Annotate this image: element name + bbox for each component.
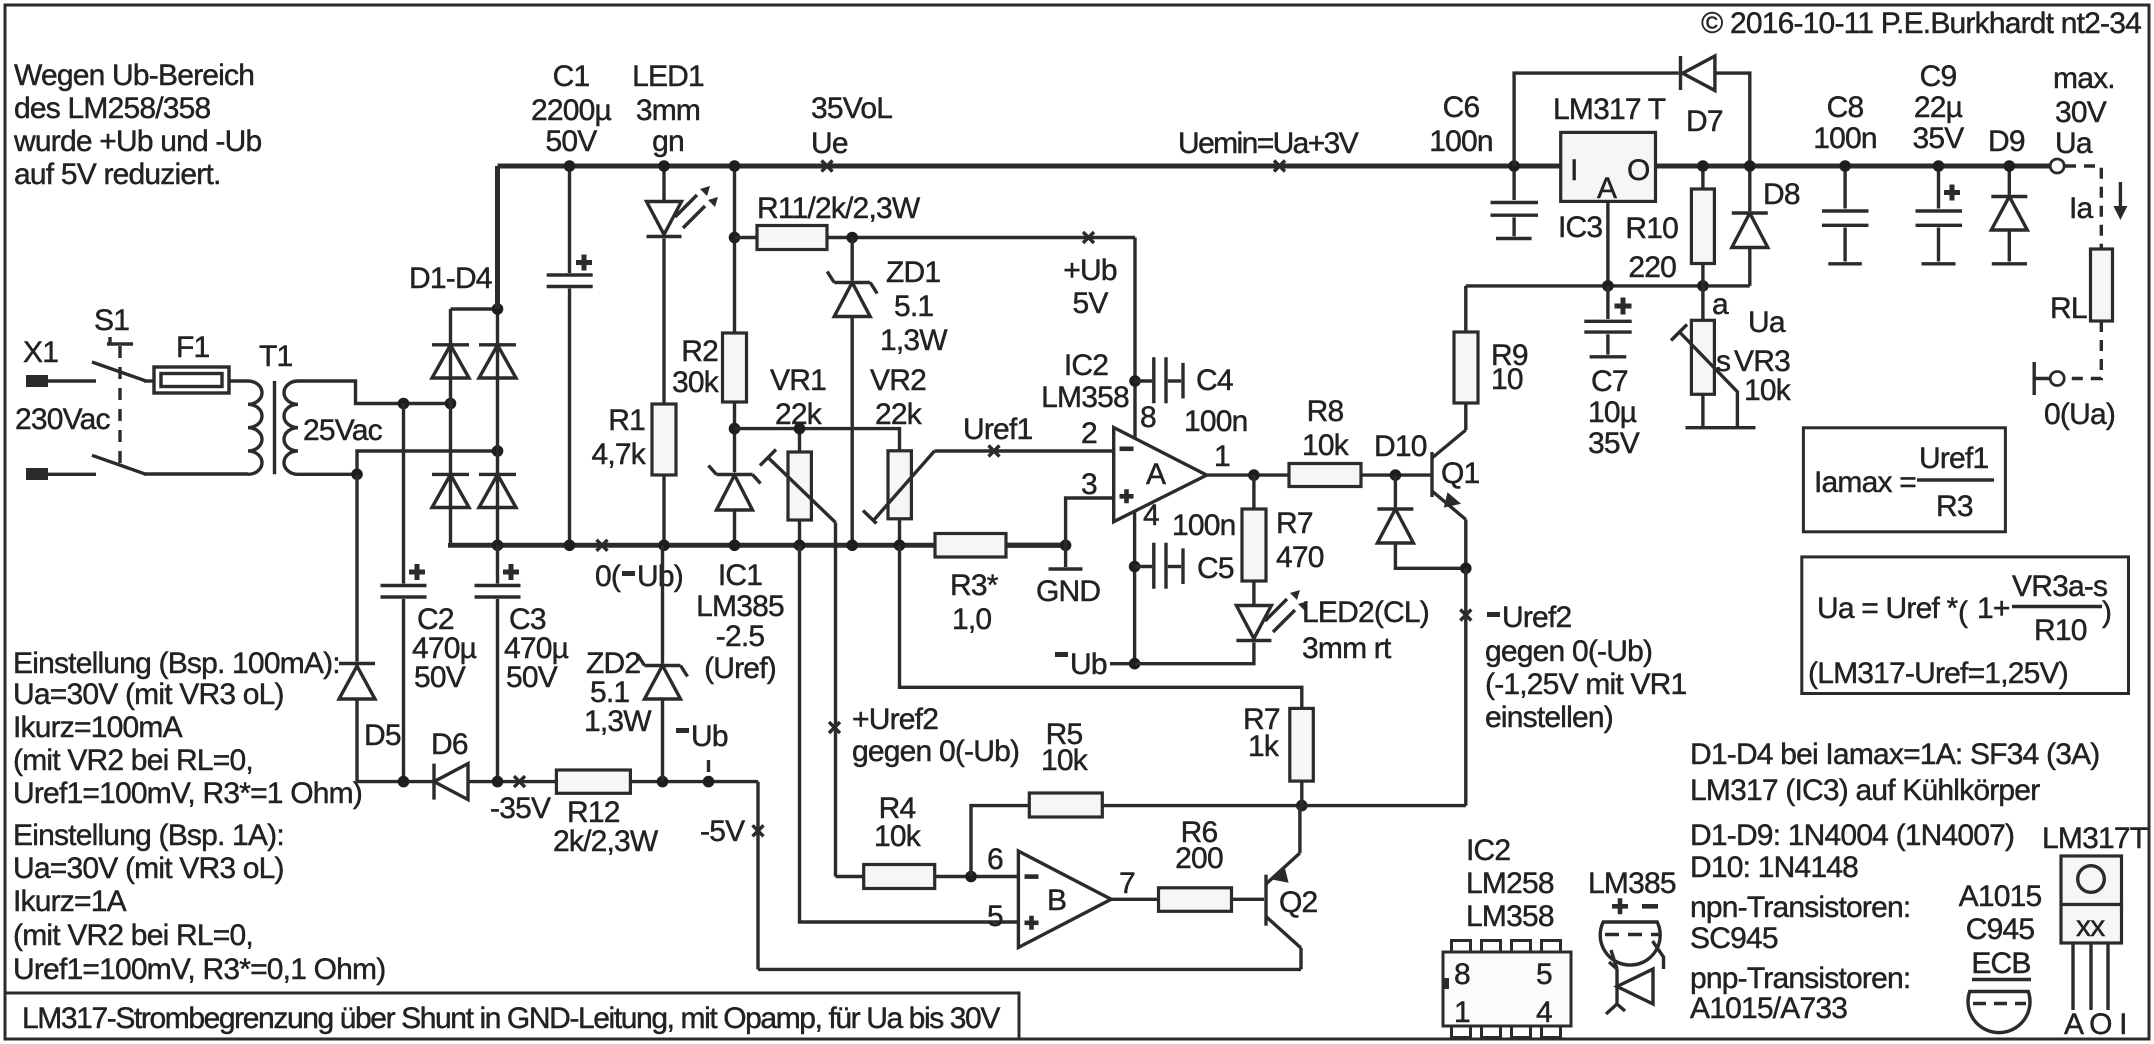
svg-text:R3: R3 — [1936, 490, 1973, 523]
connector X1 — [15, 336, 111, 480]
svg-text:R10: R10 — [1625, 212, 1678, 245]
junction bridge top — [492, 303, 504, 315]
label Ia arrow — [2069, 182, 2127, 225]
junction VR1 top — [794, 423, 806, 435]
transformer T1 — [248, 340, 383, 474]
svg-text:100n: 100n — [1429, 125, 1493, 158]
svg-text:R11/2k/2,3W: R11/2k/2,3W — [757, 192, 921, 225]
svg-text:LM317 (IC3) auf Kühlkörper: LM317 (IC3) auf Kühlkörper — [1690, 774, 2040, 807]
svg-text:10: 10 — [1491, 363, 1523, 396]
svg-text:gegen 0(-Ub): gegen 0(-Ub) — [852, 735, 1019, 768]
svg-text:D5: D5 — [364, 719, 401, 752]
svg-text:4: 4 — [1143, 499, 1159, 532]
junction bridge bottom — [492, 540, 504, 552]
svg-text:1,0: 1,0 — [952, 603, 991, 636]
svg-text:A: A — [1597, 172, 1617, 205]
svg-text:D1-D9: 1N4004 (1N4007): D1-D9: 1N4004 (1N4007) — [1690, 819, 2014, 852]
svg-text:D10: D10 — [1374, 430, 1427, 463]
svg-text:IC3: IC3 — [1558, 211, 1602, 244]
svg-text:IC2: IC2 — [1466, 834, 1510, 867]
wire ADJ rail — [1466, 284, 1750, 287]
svg-text:4,7k: 4,7k — [591, 438, 646, 471]
junction D8 top — [1744, 160, 1756, 172]
svg-text:RL: RL — [2050, 292, 2087, 325]
svg-text:220: 220 — [1628, 251, 1676, 284]
junction LED1 top — [658, 160, 670, 172]
resistor R9 — [1454, 286, 1528, 403]
svg-text:s: s — [1716, 345, 1730, 378]
wire dashed to RL — [2065, 166, 2101, 249]
capacitor C9 — [1913, 60, 1965, 264]
svg-text:Uref2: Uref2 — [1502, 601, 1571, 634]
svg-text:Wegen Ub-Bereich: Wegen Ub-Bereich — [14, 59, 254, 92]
svg-text:Q1: Q1 — [1441, 457, 1480, 490]
wire op-amp B output — [1111, 898, 1158, 901]
svg-text:Iamax =: Iamax = — [1814, 466, 1916, 499]
svg-text:R10: R10 — [2034, 614, 2087, 647]
svg-text:ZD1: ZD1 — [886, 256, 940, 289]
svg-text:5.1: 5.1 — [894, 290, 933, 323]
svg-text:VR1: VR1 — [770, 364, 826, 397]
svg-text:Uemin=Ua+3V: Uemin=Ua+3V — [1178, 127, 1359, 160]
junction VR1 bottom — [794, 540, 806, 552]
svg-text:B: B — [1047, 884, 1066, 917]
wire X1 to S1 bottom — [48, 473, 96, 476]
junction C1 top — [564, 160, 576, 172]
terminal 0(Ua) — [2034, 362, 2115, 431]
svg-text:R7: R7 — [1276, 507, 1313, 540]
junction C2 on rail — [398, 776, 410, 788]
svg-text:35VoL: 35VoL — [811, 92, 892, 125]
svg-text:10µ: 10µ — [1588, 396, 1637, 429]
svg-text:Ua = Uref *: Ua = Uref * — [1817, 592, 1959, 625]
svg-text:D8: D8 — [1763, 178, 1800, 211]
capacitor C5 — [1135, 509, 1236, 589]
junction AC1 at bridge left column — [445, 398, 457, 410]
svg-text:A: A — [1146, 458, 1166, 491]
capacitor C7 — [1584, 286, 1639, 460]
svg-text:Ue: Ue — [811, 127, 848, 160]
capacitor C4 — [1135, 357, 1248, 438]
svg-text:SC945: SC945 — [1690, 922, 1778, 955]
svg-text:8: 8 — [1140, 401, 1156, 434]
junction C8 — [1839, 160, 1851, 172]
junction -Ub node — [1129, 658, 1141, 670]
svg-text:Ua: Ua — [2055, 127, 2093, 160]
svg-text:Uref1=100mV, R3*=1 Ohm): Uref1=100mV, R3*=1 Ohm) — [13, 777, 362, 810]
svg-text:gn: gn — [652, 125, 684, 158]
svg-text:npn-Transistoren:: npn-Transistoren: — [1690, 891, 1910, 924]
wire +Uref2 sense from VR1 wiper — [834, 523, 837, 877]
junction C5 tee — [1129, 561, 1141, 573]
svg-text:2: 2 — [1081, 417, 1097, 450]
junction D10 tee — [1390, 469, 1402, 481]
wire op-amp A output — [1207, 473, 1289, 476]
label -Ub left — [676, 720, 728, 772]
svg-text:xx: xx — [2076, 910, 2105, 943]
svg-text:R2: R2 — [681, 335, 718, 368]
svg-text:(Uref): (Uref) — [704, 652, 776, 685]
wire S1 to F1 — [144, 379, 154, 382]
svg-text:F1: F1 — [176, 331, 210, 364]
svg-text:D9: D9 — [1988, 125, 2025, 158]
junction R4/R5 node — [965, 871, 977, 883]
svg-text:C6: C6 — [1443, 91, 1480, 124]
wire ADJ pin down — [1606, 201, 1609, 286]
junction C1 bottom — [564, 540, 576, 552]
svg-text:0(: 0( — [595, 560, 621, 593]
ground GND symbol — [1036, 545, 1100, 608]
wire AC1: T1 top to bridge — [298, 381, 451, 404]
svg-text:30k: 30k — [672, 366, 720, 399]
svg-text:Ub: Ub — [691, 720, 728, 753]
formula box Ua — [1802, 557, 2129, 694]
svg-text:+Ub: +Ub — [1063, 254, 1117, 287]
svg-text:Q2: Q2 — [1279, 886, 1318, 919]
svg-text:Ia: Ia — [2069, 192, 2094, 225]
wire thick: 0(-Ub) bus — [451, 543, 1066, 545]
svg-text:2200µ: 2200µ — [531, 94, 612, 127]
svg-text:R1: R1 — [608, 404, 645, 437]
shunt resistor R3* — [935, 534, 1066, 637]
diode D10 — [1374, 430, 1466, 568]
wire R12 to -Ub corner — [630, 780, 758, 783]
svg-text:Einstellung (Bsp. 1A):: Einstellung (Bsp. 1A): — [13, 819, 284, 852]
svg-text:200: 200 — [1175, 842, 1223, 875]
diode D7 — [1514, 56, 1750, 166]
svg-text:a: a — [1712, 288, 1729, 321]
svg-text:Ub): Ub) — [637, 560, 683, 593]
svg-text:22µ: 22µ — [1914, 91, 1963, 124]
svg-text:3mm rt: 3mm rt — [1302, 632, 1392, 665]
junction AC2 at bridge right column — [492, 445, 504, 457]
LM317T package symbol — [2042, 822, 2148, 1041]
svg-text:pnp-Transistoren:: pnp-Transistoren: — [1690, 962, 1910, 995]
svg-text:O: O — [1627, 154, 1650, 187]
bridge rectifier D1-D4 — [409, 262, 516, 545]
wire thick: bridge top to 35V bus — [495, 166, 500, 309]
svg-text:1+: 1+ — [1977, 592, 2010, 625]
wire -Ub to LED2 — [1135, 643, 1254, 664]
svg-text:(mit VR2 bei RL=0,: (mit VR2 bei RL=0, — [13, 919, 253, 952]
wire Uref1 to op-amp pin 2 — [935, 449, 1114, 452]
label Uref1 — [963, 413, 1032, 457]
junction D9 — [2004, 160, 2016, 172]
svg-text:VR2: VR2 — [870, 364, 926, 397]
svg-text:1: 1 — [1214, 440, 1230, 473]
capacitor C1 — [531, 60, 612, 545]
junction C6/D7 — [1508, 160, 1520, 172]
svg-text:3: 3 — [1081, 468, 1097, 501]
svg-text:8: 8 — [1454, 958, 1470, 991]
svg-text:R8: R8 — [1307, 395, 1344, 428]
svg-text:-35V: -35V — [490, 792, 551, 825]
resistor R10 — [1625, 166, 1714, 286]
diode D6 — [431, 728, 468, 800]
svg-text:S1: S1 — [94, 304, 129, 337]
svg-text:): ) — [2102, 596, 2112, 629]
svg-text:LED2(CL): LED2(CL) — [1302, 596, 1429, 629]
svg-text:100n: 100n — [1813, 122, 1877, 155]
label Uemin=Ua+3V — [1178, 127, 1359, 172]
resistor R11 — [735, 192, 1136, 250]
resistor R7 470 — [1242, 475, 1324, 581]
label -35V — [490, 776, 551, 825]
svg-text:1: 1 — [1454, 996, 1470, 1029]
junction ZD2 on rail — [657, 776, 669, 788]
svg-text:A O I: A O I — [2064, 1008, 2127, 1041]
capacitor C3 — [475, 545, 569, 781]
label -Uref2 — [1460, 601, 1686, 734]
svg-text:(mit VR2 bei RL=0,: (mit VR2 bei RL=0, — [13, 744, 253, 777]
svg-text:(: ( — [1958, 596, 1968, 629]
svg-text:-5V: -5V — [700, 815, 745, 848]
svg-text:470: 470 — [1276, 541, 1324, 574]
junction IC1 bottom — [729, 540, 741, 552]
diode D8 — [1732, 166, 1800, 286]
label +Uref2 — [829, 703, 1019, 768]
svg-text:7: 7 — [1119, 867, 1135, 900]
junction AC1/C2 — [398, 398, 410, 410]
note text: Einstellung block 1 — [13, 647, 362, 810]
transistor Q1 — [1432, 403, 1480, 568]
junction R10 top — [1697, 160, 1709, 172]
svg-text:Ua=30V (mit VR3 oL): Ua=30V (mit VR3 oL) — [13, 852, 284, 885]
formula box Iamax — [1803, 428, 2005, 532]
svg-text:22k: 22k — [875, 398, 923, 431]
A1015/C945 pinout symbol — [1959, 880, 2042, 1033]
svg-text:LM358: LM358 — [1466, 900, 1554, 933]
svg-text:X1: X1 — [23, 336, 58, 369]
op-amp U A (IC2a) — [1041, 349, 1230, 532]
svg-text:50V: 50V — [414, 661, 466, 694]
svg-text:LM385: LM385 — [1588, 867, 1676, 900]
svg-text:IC2: IC2 — [1064, 349, 1108, 382]
switch S1 — [92, 304, 146, 474]
svg-text:des LM258/358: des LM258/358 — [14, 92, 211, 125]
wire AC2: T1 bottom to bridge — [298, 451, 498, 474]
svg-text:Uref1: Uref1 — [963, 413, 1032, 446]
svg-text:© 2016-10-11 P.E.Burkhardt nt2: © 2016-10-11 P.E.Burkhardt nt2-34 — [1701, 7, 2141, 40]
zener ZD2 — [584, 545, 688, 781]
resistor R12 — [553, 770, 659, 858]
wire -Uref2 down from Q1 emitter — [1464, 568, 1467, 805]
svg-text:einstellen): einstellen) — [1485, 701, 1613, 734]
wire Uref line IC1 to VR1/VR2 — [735, 429, 900, 451]
svg-text:LM385: LM385 — [696, 590, 784, 623]
svg-text:1,3W: 1,3W — [880, 324, 948, 357]
svg-text:GND: GND — [1036, 575, 1100, 608]
LED LED1 — [632, 60, 718, 404]
svg-text:D1-D4: D1-D4 — [409, 262, 492, 295]
svg-text:auf 5V reduziert.: auf 5V reduziert. — [14, 158, 221, 191]
resistor R2 — [672, 333, 746, 472]
wire GND to op-amp pin 3 — [1066, 498, 1114, 545]
svg-text:1,3W: 1,3W — [584, 705, 652, 738]
svg-text:Uref1: Uref1 — [1919, 442, 1988, 475]
svg-text:5: 5 — [1536, 958, 1552, 991]
svg-text:10k: 10k — [1744, 374, 1792, 407]
svg-text:(-1,25V mit VR1: (-1,25V mit VR1 — [1485, 668, 1687, 701]
svg-text:100n: 100n — [1184, 405, 1248, 438]
resistor R6 — [1159, 816, 1265, 911]
svg-text:IC1: IC1 — [718, 559, 762, 592]
svg-text:C4: C4 — [1196, 364, 1233, 397]
label -5V — [700, 815, 764, 848]
label 35VoL Ue — [811, 92, 892, 172]
svg-text:Einstellung (Bsp. 100mA):: Einstellung (Bsp. 100mA): — [13, 647, 340, 680]
wire R2 column from bus — [733, 166, 736, 333]
wire D6 to R12 — [468, 780, 556, 783]
junction GND node — [1060, 540, 1072, 552]
svg-text:max.: max. — [2053, 62, 2115, 95]
fuse F1 — [154, 331, 229, 393]
potentiometer VR3 — [1671, 286, 1792, 428]
svg-text:35V: 35V — [1588, 427, 1640, 460]
junction ADJ/C7 — [1602, 280, 1614, 292]
svg-text:gegen 0(-Ub): gegen 0(-Ub) — [1485, 635, 1652, 668]
svg-text:D6: D6 — [431, 728, 468, 761]
resistor R8 — [1289, 395, 1430, 487]
label -Ub at op-amp — [1055, 648, 1135, 681]
svg-text:D10: 1N4148: D10: 1N4148 — [1690, 851, 1858, 884]
wire F1 to T1 — [229, 379, 248, 382]
title box bottom — [5, 993, 1019, 1039]
svg-text:A1015/A733: A1015/A733 — [1690, 992, 1847, 1025]
svg-text:25Vac: 25Vac — [303, 414, 383, 447]
svg-text:(LM317-Uref=1,25V): (LM317-Uref=1,25V) — [1808, 657, 2068, 690]
svg-text:0(Ua): 0(Ua) — [2044, 398, 2115, 431]
zener ZD1 — [827, 238, 948, 546]
capacitor C8 — [1813, 91, 1877, 264]
svg-text:Ua=30V (mit VR3 oL): Ua=30V (mit VR3 oL) — [13, 678, 284, 711]
label +Ub 5V — [1063, 232, 1117, 320]
junction Uref node — [729, 423, 741, 435]
resistor R5 — [1029, 718, 1302, 817]
wire op-amp pin 4 down — [1133, 511, 1136, 664]
potentiometer VR2 — [863, 364, 935, 545]
svg-text:D1-D4 bei Iamax=1A: SF34 (3A): D1-D4 bei Iamax=1A: SF34 (3A) — [1690, 738, 2100, 771]
wire S1 to T1 bottom — [144, 472, 248, 475]
junction ZD1 bottom — [846, 540, 858, 552]
svg-text:LED1: LED1 — [632, 60, 704, 93]
op-amp U B (IC2b) — [987, 843, 1135, 948]
wire X1 to S1 top — [48, 379, 96, 382]
svg-text:230Vac: 230Vac — [15, 403, 111, 436]
svg-text:2k/2,3W: 2k/2,3W — [553, 825, 659, 858]
regulator IC3 LM317 — [1553, 93, 1666, 244]
capacitor C2 — [381, 404, 477, 782]
junction R11 tee — [729, 232, 741, 244]
wire VR1 bottom to op-amp B pin5 — [800, 545, 1019, 922]
svg-text:D7: D7 — [1686, 105, 1723, 138]
svg-text:T1: T1 — [259, 340, 293, 373]
svg-text:I: I — [1570, 154, 1578, 187]
shunt reference IC1 LM385 — [696, 466, 784, 686]
load RL — [2050, 249, 2113, 325]
svg-text:LM317T: LM317T — [2042, 822, 2148, 855]
svg-text:Ub: Ub — [1070, 648, 1107, 681]
svg-text:10k: 10k — [1041, 744, 1089, 777]
junction R1 bottom — [658, 540, 670, 552]
svg-text:Ikurz=1A: Ikurz=1A — [13, 885, 127, 918]
wire -5V drop — [756, 782, 759, 970]
svg-text:6: 6 — [987, 843, 1003, 876]
junction output node — [1248, 469, 1260, 481]
junction C3 on rail — [492, 776, 504, 788]
wire feedback to R5 — [971, 806, 1029, 877]
svg-text:10k: 10k — [874, 820, 922, 853]
svg-text:Ua: Ua — [1748, 306, 1786, 339]
svg-text:-2.5: -2.5 — [716, 620, 765, 653]
transistor Q2 — [1266, 806, 1318, 970]
svg-text:LM317 T: LM317 T — [1553, 93, 1666, 126]
wire +Ub drop to op-amp pin 8 — [1133, 238, 1136, 440]
diode D5 — [339, 474, 404, 781]
resistor R4 — [836, 792, 1019, 889]
svg-text:wurde +Ub und -Ub: wurde +Ub und -Ub — [13, 125, 261, 158]
wire dashed RL to 0(Ua) — [2066, 321, 2101, 379]
note text: parts info bottom right — [1690, 738, 2100, 1025]
svg-text:4: 4 — [1536, 996, 1552, 1029]
junction ZD1 tee — [846, 232, 858, 244]
junction R2 top bus — [729, 160, 741, 172]
svg-text:10k: 10k — [1302, 429, 1350, 462]
svg-text:30V: 30V — [2055, 96, 2107, 129]
resistor R7 1k — [1243, 703, 1313, 806]
junction VR2 bottom — [894, 540, 906, 552]
junction -Ub stub on rail — [703, 776, 715, 788]
junction AC2/D5 — [351, 469, 363, 481]
svg-text:C8: C8 — [1827, 91, 1864, 124]
svg-text:5: 5 — [987, 900, 1003, 933]
junction C4 tee — [1129, 375, 1141, 387]
note text top-left — [13, 59, 261, 191]
svg-text:A1015: A1015 — [1959, 880, 2042, 913]
svg-text:LM358: LM358 — [1041, 381, 1129, 414]
svg-text:R3*: R3* — [950, 569, 999, 602]
note text: Einstellung block 2 — [13, 819, 385, 986]
LM385 package symbol — [1588, 867, 1676, 1014]
diode D9 — [1988, 125, 2027, 264]
svg-text:C1: C1 — [553, 60, 590, 93]
svg-text:1k: 1k — [1248, 730, 1280, 763]
svg-text:C7: C7 — [1591, 365, 1628, 398]
svg-text:Ikurz=100mA: Ikurz=100mA — [13, 711, 183, 744]
svg-text:C9: C9 — [1920, 60, 1957, 93]
label 0(-Ub) — [595, 540, 683, 593]
svg-text:ECB: ECB — [1971, 947, 2030, 980]
wire R5 node to Q1 emitter line — [1302, 804, 1466, 807]
svg-text:LM317-Strombegrenzung über Shu: LM317-Strombegrenzung über Shunt in GND-… — [22, 1002, 1000, 1035]
svg-text:Uref1=100mV, R3*=0,1 Ohm): Uref1=100mV, R3*=0,1 Ohm) — [13, 953, 385, 986]
svg-text:VR3a-s: VR3a-s — [2012, 570, 2107, 603]
wire bottom rail to Q2 emitter — [758, 968, 1301, 971]
wire VR2 bottom down to R7 1k line — [900, 545, 1302, 708]
svg-text:C5: C5 — [1197, 552, 1234, 585]
potentiometer VR1 — [760, 364, 836, 545]
svg-text:50V: 50V — [506, 661, 558, 694]
junction ADJ/R10 — [1697, 280, 1709, 292]
svg-text:35V: 35V — [1913, 122, 1965, 155]
junction R5/R7 node — [1296, 800, 1308, 812]
svg-text:100n: 100n — [1172, 509, 1236, 542]
wire thick: 35VoL top bus — [498, 164, 2051, 169]
junction C9 — [1933, 160, 1945, 172]
svg-text:3mm: 3mm — [636, 94, 700, 127]
svg-text:C945: C945 — [1966, 913, 2035, 946]
IC2 DIP-8 package — [1443, 834, 1571, 1038]
